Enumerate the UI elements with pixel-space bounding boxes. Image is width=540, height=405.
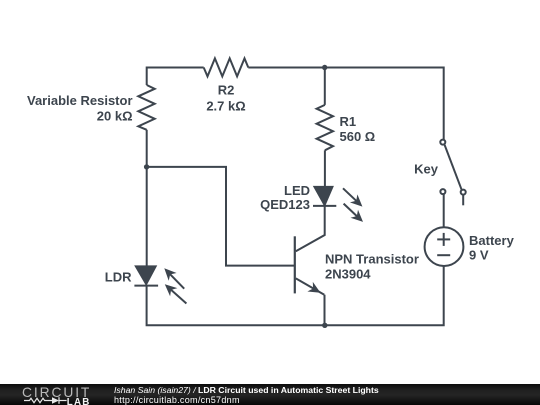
svg-text:9 V: 9 V [469, 248, 489, 263]
svg-text:560 Ω: 560 Ω [340, 129, 376, 144]
node junction top [322, 65, 327, 70]
photoresistor LDR [105, 266, 158, 285]
svg-text:NPN Transistor: NPN Transistor [325, 252, 419, 267]
svg-text:2N3904: 2N3904 [325, 266, 371, 281]
transistor Q1 2N3904 [295, 236, 419, 294]
svg-text:QED123: QED123 [260, 197, 310, 212]
switch Key [414, 140, 466, 206]
resistor R2 [204, 58, 249, 113]
svg-text:Variable Resistor: Variable Resistor [27, 93, 133, 108]
svg-text:LAB: LAB [67, 397, 91, 405]
footer bar [0, 384, 540, 405]
LED QED123 [260, 183, 336, 212]
wire R1 to LED [324, 150, 326, 187]
node junction bottom [322, 323, 327, 328]
svg-text:R2: R2 [218, 83, 235, 98]
resistor R1 [317, 105, 376, 150]
wire left rail middle [146, 130, 148, 266]
wire LED to collector [296, 206, 325, 251]
LDR arrow 1 [164, 268, 184, 288]
svg-text:2.7 kΩ: 2.7 kΩ [206, 99, 245, 114]
wire left rail lower [147, 286, 325, 326]
svg-text:Key: Key [414, 162, 439, 177]
battery V1 9V [425, 227, 515, 266]
wire base branch [147, 167, 295, 266]
wire top rail left [147, 68, 204, 86]
svg-text:Battery: Battery [469, 233, 515, 248]
svg-text:LED: LED [284, 183, 310, 198]
wire switch to battery [443, 194, 445, 227]
wire top rail right [248, 68, 443, 140]
node junction left [144, 164, 149, 169]
footer caption text [114, 385, 379, 405]
CircuitLab logo [0, 384, 100, 405]
wire emitter drop [324, 295, 326, 326]
LED arrow 2 [344, 204, 363, 222]
LDR arrow 2 [165, 284, 187, 303]
svg-text:20 kΩ: 20 kΩ [97, 109, 133, 124]
wire bottom rail right [325, 266, 444, 325]
svg-text:R1: R1 [340, 114, 357, 129]
svg-text:LDR: LDR [105, 270, 132, 285]
variable resistor 20k [27, 85, 155, 130]
wire R1 drop [324, 68, 326, 105]
LED arrow 1 [343, 188, 362, 206]
